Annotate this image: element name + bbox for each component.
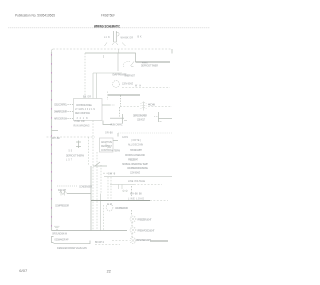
defrost thermostat xyxy=(76,141,81,149)
svg-text:OR-BK: OR-BK xyxy=(105,132,113,134)
cold control box xyxy=(74,99,103,121)
svg-text:COLD CONTROL: COLD CONTROL xyxy=(54,104,68,106)
wire dashed stub right of box xyxy=(107,92,109,101)
svg-text:DEFROST HEATER: DEFROST HEATER xyxy=(133,115,147,118)
wire icemaker line xyxy=(54,241,91,244)
wire vertical solid branch xyxy=(90,166,92,231)
defrost timer motor xyxy=(123,61,134,67)
control leader 2 xyxy=(68,111,74,113)
wire lamp feed dashed xyxy=(131,186,133,196)
wire heater drop dashed xyxy=(120,96,122,107)
svg-text:GRN: GRN xyxy=(122,137,128,139)
svg-text:WH-BK BK: WH-BK BK xyxy=(130,193,142,195)
svg-text:120 VOLT: 120 VOLT xyxy=(137,120,146,122)
control leader 1 xyxy=(68,104,74,106)
wire dashed evap run xyxy=(122,87,170,89)
svg-text:GROUND BK-W: GROUND BK-W xyxy=(52,234,68,236)
svg-text:120V 60HZ: 120V 60HZ xyxy=(130,172,141,174)
svg-text:DEF COMP FAN: DEF COMP FAN xyxy=(75,112,90,115)
wire dotted mid separator xyxy=(118,132,172,134)
svg-text:COMPRESSOR RUNNING: COMPRESSOR RUNNING xyxy=(127,168,148,170)
svg-text:DISPENSER LIGHT: DISPENSER LIGHT xyxy=(136,240,152,242)
svg-text:CONDENSER: CONDENSER xyxy=(79,186,92,188)
svg-text:DAMPER CONTR: DAMPER CONTR xyxy=(54,110,67,113)
node tick right end xyxy=(171,49,173,54)
svg-text:NORMAL OPERATING TEMP: NORMAL OPERATING TEMP xyxy=(122,163,148,166)
freezer light bulb xyxy=(130,216,136,222)
wire mid solid short xyxy=(110,184,134,186)
svg-text:BK-WH 2: BK-WH 2 xyxy=(95,242,105,244)
svg-text:ADAPTIVE: ADAPTIVE xyxy=(101,141,112,144)
svg-text:OR: OR xyxy=(107,204,112,206)
plug lead chevron xyxy=(112,42,118,46)
svg-text:ICEMAKER 4P: ICEMAKER 4P xyxy=(55,238,69,241)
wire dispenser dashed xyxy=(112,240,129,242)
plug lead diagonals xyxy=(105,43,126,47)
svg-text:RUN WINDING: RUN WINDING xyxy=(74,126,90,128)
defrost heater run dashed xyxy=(120,106,139,108)
svg-text:DEFROST THERM: DEFROST THERM xyxy=(66,155,84,157)
svg-text:ALL DISCONN: ALL DISCONN xyxy=(128,144,143,147)
wire timer to right xyxy=(136,61,171,63)
door switch diagonal xyxy=(95,162,100,166)
svg-text:COMPRESSOR: COMPRESSOR xyxy=(55,205,69,207)
wire stub left xyxy=(52,130,59,132)
wire mid dashed extension xyxy=(134,184,162,186)
wire dashed stub above divider xyxy=(103,172,116,174)
ground clip xyxy=(54,226,60,229)
wire dispenser right solid xyxy=(150,240,168,242)
compressor motor xyxy=(106,204,113,211)
wire lamp chain dashed xyxy=(131,210,133,216)
svg-text:CONTROL PANEL: CONTROL PANEL xyxy=(76,104,93,107)
svg-text:4 TERM: 4 TERM xyxy=(112,151,120,153)
svg-text:FRESH FOOD LIGHT: FRESH FOOD LIGHT xyxy=(138,230,156,232)
svg-text:COMPRESSOR: COMPRESSOR xyxy=(115,208,128,210)
evaporator fan motor xyxy=(113,81,120,88)
svg-text:3 2 1 N: 3 2 1 N xyxy=(77,118,88,120)
svg-text:EVAP FAN MTR: EVAP FAN MTR xyxy=(113,74,127,77)
fresh food light bulb xyxy=(130,227,136,233)
svg-text:LT GRN 4 3 2 1 N: LT GRN 4 3 2 1 N xyxy=(75,109,95,111)
wire verticals to control box xyxy=(92,73,94,99)
wire vertical drop xyxy=(100,194,102,231)
svg-text:Publication No. 5995419565: Publication No. 5995419565 xyxy=(15,13,56,18)
svg-text:4 RPH: 4 RPH xyxy=(142,63,148,65)
wire right pair dashed xyxy=(107,177,109,201)
svg-text:( NOTE ): ( NOTE ) xyxy=(131,140,141,142)
wire dotted left leader xyxy=(57,185,77,187)
svg-text:440 OHM: 440 OHM xyxy=(148,105,155,107)
power cord plug xyxy=(114,31,120,42)
neutral solid bus xyxy=(85,53,136,62)
svg-text:FREEZER LIGHT: FREEZER LIGHT xyxy=(138,219,153,221)
wire L1 dashed top bus xyxy=(52,49,54,52)
adaptive defrost control box xyxy=(100,138,114,152)
icemaker plug xyxy=(52,237,54,243)
wire branch left xyxy=(93,72,122,74)
svg-text:120V 60HZ: 120V 60HZ xyxy=(122,84,134,86)
wire lower mid bus xyxy=(91,200,150,202)
svg-text:SW 2: SW 2 xyxy=(108,174,116,176)
svg-text:WH-BK OR: WH-BK OR xyxy=(121,38,134,40)
svg-text:L1 N: L1 N xyxy=(104,37,110,39)
svg-text:BK OR: BK OR xyxy=(83,96,91,98)
svg-text:FREEZER AT: FREEZER AT xyxy=(128,158,139,161)
wire bottom bus xyxy=(52,230,128,232)
svg-text:DEFROST TIMER: DEFROST TIMER xyxy=(141,66,158,68)
wire control output bottom xyxy=(103,121,112,125)
svg-text:L57: L57 xyxy=(66,159,73,161)
node tick small xyxy=(103,55,105,58)
header dotted separator rule xyxy=(9,27,211,29)
svg-text:CONTROL: CONTROL xyxy=(101,150,113,152)
wire lower mid dashed xyxy=(150,200,168,202)
svg-text:SHOWN WITH: SHOWN WITH xyxy=(130,150,142,152)
wire condenser run xyxy=(67,193,91,195)
svg-text:FRS6T5EF: FRS6T5EF xyxy=(101,13,115,18)
overload protector xyxy=(154,112,172,122)
svg-text:6/07: 6/07 xyxy=(19,269,27,273)
svg-text:PINK OR: PINK OR xyxy=(75,121,85,123)
wire dashed left run xyxy=(47,136,96,138)
wire icemaker dashed xyxy=(95,244,120,246)
wire dotted corner drop xyxy=(117,133,119,137)
wire dashed drop to control box xyxy=(84,53,86,99)
wire long dashed divider upper xyxy=(104,176,172,178)
connector pins xyxy=(119,185,128,192)
control leader 3 xyxy=(68,118,74,120)
svg-text:LINE VOLTAGE: LINE VOLTAGE xyxy=(128,180,145,183)
wire plug node drop xyxy=(118,49,120,53)
defrost heater element xyxy=(141,102,147,111)
svg-text:BK: BK xyxy=(138,37,142,39)
svg-text:DOORS CLOSED AND: DOORS CLOSED AND xyxy=(125,154,145,157)
wire control output right xyxy=(102,104,115,106)
connector arrow symbol xyxy=(106,144,111,149)
wire vertical plug to fan xyxy=(117,53,119,71)
condenser fan resistor xyxy=(60,190,67,196)
svg-text:RUN CAPAC: RUN CAPAC xyxy=(111,124,123,127)
wire switch run xyxy=(93,165,107,167)
wire compressor dashed drop xyxy=(103,205,105,231)
svg-text:WH-BK: WH-BK xyxy=(52,138,60,140)
dispenser light bulb xyxy=(130,238,136,244)
left rail wire xyxy=(51,52,53,231)
svg-text:WIRING SCHEMATIC: WIRING SCHEMATIC xyxy=(94,23,120,28)
svg-text:22: 22 xyxy=(107,270,111,274)
svg-text:DEFROST: DEFROST xyxy=(101,146,113,148)
svg-text:FAN MT: FAN MT xyxy=(58,189,67,192)
svg-text:LINE LOAD: LINE LOAD xyxy=(128,197,144,200)
wire vertical dashed bundle xyxy=(88,137,90,165)
run capacitor junction xyxy=(110,107,127,124)
wire mid bus xyxy=(108,94,140,96)
svg-text:AIR DOOR SW: AIR DOOR SW xyxy=(54,117,68,120)
wire adc to dotted xyxy=(113,140,118,142)
svg-text:ICEMAKER WATER VALVE 120V: ICEMAKER WATER VALVE 120V xyxy=(57,247,87,250)
